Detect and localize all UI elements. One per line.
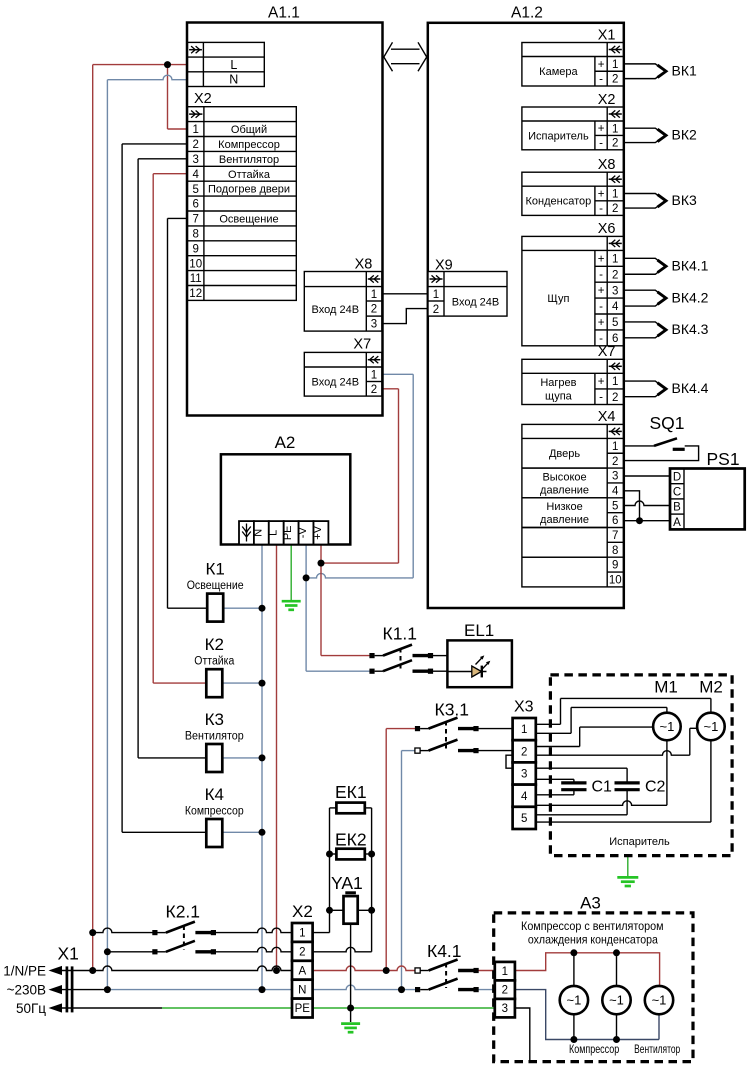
svg-text:К2.1: К2.1 (166, 902, 201, 922)
svg-text:4: 4 (521, 791, 528, 803)
svg-text:~230В: ~230В (7, 983, 46, 998)
svg-text:А3: А3 (580, 894, 601, 913)
svg-text:+: + (598, 123, 605, 135)
svg-text:2: 2 (612, 74, 618, 86)
svg-text:L: L (267, 530, 279, 536)
svg-text:2: 2 (521, 746, 527, 758)
svg-text:PE: PE (295, 1003, 311, 1015)
svg-text:Общий: Общий (231, 124, 267, 136)
svg-text:Камера: Камера (539, 66, 578, 78)
svg-text:11: 11 (190, 273, 202, 285)
svg-text:ВК4.3: ВК4.3 (672, 321, 709, 337)
svg-text:-: - (599, 301, 603, 313)
svg-text:1: 1 (612, 376, 618, 388)
svg-text:М1: М1 (654, 678, 678, 697)
svg-text:Нагрев: Нагрев (540, 377, 576, 389)
svg-text:1: 1 (612, 189, 618, 201)
svg-text:К2: К2 (205, 635, 224, 654)
svg-text:М2: М2 (699, 678, 723, 697)
svg-text:1: 1 (371, 289, 377, 301)
svg-text:4: 4 (612, 301, 619, 313)
svg-text:5: 5 (612, 317, 618, 329)
svg-text:2: 2 (502, 985, 508, 997)
svg-text:Х2: Х2 (292, 902, 313, 921)
svg-text:Компрессор: Компрессор (569, 1042, 619, 1056)
svg-text:Х4: Х4 (598, 409, 616, 425)
svg-text:-: - (599, 269, 603, 281)
svg-text:ЕК2: ЕК2 (335, 830, 367, 850)
svg-text:ВК1: ВК1 (672, 62, 697, 78)
svg-text:ВК2: ВК2 (672, 127, 697, 143)
svg-text:9: 9 (192, 243, 198, 255)
svg-text:А1.2: А1.2 (511, 5, 543, 22)
svg-text:1: 1 (433, 289, 439, 301)
svg-text:2: 2 (192, 139, 198, 151)
svg-text:Вход 24В: Вход 24В (452, 296, 500, 308)
svg-text:Х2: Х2 (598, 92, 616, 108)
svg-text:10: 10 (609, 575, 622, 587)
svg-text:А2: А2 (275, 433, 296, 452)
svg-text:2: 2 (433, 304, 439, 316)
svg-text:ЕК1: ЕК1 (335, 782, 367, 802)
svg-text:Вход 24В: Вход 24В (312, 304, 360, 316)
svg-text:~1: ~1 (652, 993, 667, 1008)
svg-text:3: 3 (612, 471, 618, 483)
svg-text:ВК4.2: ВК4.2 (672, 289, 709, 305)
svg-text:1: 1 (299, 928, 305, 940)
svg-text:D: D (673, 471, 681, 483)
svg-text:Компрессор: Компрессор (218, 139, 280, 151)
svg-text:9: 9 (612, 560, 618, 572)
svg-text:2: 2 (612, 138, 618, 150)
svg-text:К1.1: К1.1 (383, 624, 418, 644)
svg-text:Испаритель: Испаритель (609, 836, 670, 848)
svg-text:Вентилятор: Вентилятор (634, 1042, 680, 1056)
svg-text:+: + (598, 285, 605, 297)
svg-text:+: + (598, 253, 605, 265)
svg-text:L: L (230, 58, 237, 72)
svg-text:4: 4 (612, 485, 619, 497)
svg-text:5: 5 (521, 813, 527, 825)
svg-text:Х7: Х7 (353, 337, 371, 353)
svg-text:2: 2 (371, 384, 377, 396)
svg-text:-: - (599, 203, 603, 215)
svg-text:1: 1 (371, 369, 377, 381)
svg-text:N: N (229, 73, 238, 87)
svg-text:A: A (673, 517, 681, 529)
svg-text:ВК4.1: ВК4.1 (672, 258, 709, 274)
svg-text:К1: К1 (206, 560, 225, 579)
svg-text:3: 3 (502, 1003, 508, 1015)
svg-text:6: 6 (192, 199, 198, 211)
svg-text:С1: С1 (592, 779, 613, 796)
svg-text:К3.1: К3.1 (435, 700, 470, 720)
svg-text:7: 7 (192, 214, 198, 226)
svg-text:SQ1: SQ1 (650, 413, 685, 433)
svg-text:давление: давление (540, 484, 589, 496)
svg-text:Освещение: Освещение (219, 213, 278, 225)
svg-text:+V: +V (312, 525, 324, 539)
svg-text:6: 6 (612, 515, 618, 527)
svg-text:2: 2 (612, 456, 618, 468)
svg-text:PS1: PS1 (707, 449, 740, 469)
svg-text:12: 12 (189, 288, 202, 300)
svg-text:Дверь: Дверь (549, 448, 580, 460)
svg-text:Подогрев двери: Подогрев двери (208, 184, 290, 196)
svg-text:Вход 24В: Вход 24В (312, 376, 360, 388)
svg-text:N: N (298, 984, 306, 996)
svg-text:~1: ~1 (566, 993, 581, 1008)
svg-text:50Гц: 50Гц (16, 1001, 46, 1016)
svg-text:-V: -V (297, 527, 309, 539)
svg-text:YA1: YA1 (331, 873, 363, 893)
svg-text:8: 8 (192, 228, 198, 240)
svg-text:Оттайка: Оттайка (194, 656, 235, 668)
svg-text:~1: ~1 (659, 719, 674, 734)
svg-text:охлаждения конденсатора: охлаждения конденсатора (528, 932, 658, 946)
svg-text:10: 10 (189, 258, 202, 270)
svg-text:Испаритель: Испаритель (528, 130, 589, 142)
svg-text:А1.1: А1.1 (268, 5, 300, 22)
svg-text:PE: PE (282, 525, 294, 540)
svg-text:Х1: Х1 (58, 944, 79, 964)
svg-text:2: 2 (612, 392, 618, 404)
svg-text:Вентилятор: Вентилятор (219, 154, 279, 166)
svg-text:Х6: Х6 (598, 221, 616, 237)
svg-text:7: 7 (612, 530, 618, 542)
svg-text:Конденсатор: Конденсатор (526, 196, 592, 208)
svg-text:+: + (598, 188, 605, 200)
svg-text:Низкое: Низкое (546, 501, 582, 513)
svg-text:1: 1 (521, 724, 527, 736)
svg-text:К4.1: К4.1 (427, 941, 462, 961)
svg-text:2: 2 (299, 947, 305, 959)
svg-text:Компрессор с вентилятором: Компрессор с вентилятором (521, 919, 664, 933)
svg-text:Х2: Х2 (194, 91, 212, 107)
svg-text:1: 1 (612, 441, 618, 453)
svg-text:Х8: Х8 (355, 256, 373, 272)
svg-text:+: + (598, 59, 605, 71)
svg-text:Компрессор: Компрессор (185, 806, 244, 818)
svg-text:К4: К4 (205, 785, 224, 804)
svg-text:ВК4.4: ВК4.4 (672, 380, 709, 396)
svg-text:1: 1 (612, 123, 618, 135)
svg-text:2: 2 (612, 269, 618, 281)
svg-text:С2: С2 (645, 779, 666, 796)
svg-text:-: - (599, 333, 603, 345)
svg-text:-: - (599, 74, 603, 86)
svg-text:5: 5 (612, 500, 618, 512)
svg-text:Х7: Х7 (598, 344, 616, 360)
svg-text:~1: ~1 (609, 993, 624, 1008)
svg-text:3: 3 (371, 319, 377, 331)
svg-text:щупа: щупа (545, 390, 573, 402)
svg-text:EL1: EL1 (464, 621, 494, 640)
svg-text:Х8: Х8 (598, 157, 616, 173)
svg-text:2: 2 (371, 304, 377, 316)
svg-text:3: 3 (521, 769, 527, 781)
svg-text:Оттайка: Оттайка (228, 169, 271, 181)
svg-text:Освещение: Освещение (187, 580, 244, 592)
svg-text:8: 8 (612, 545, 618, 557)
svg-text:1: 1 (612, 59, 618, 71)
svg-text:+: + (598, 317, 605, 329)
svg-text:5: 5 (192, 184, 198, 196)
svg-text:1: 1 (612, 253, 618, 265)
svg-text:ВК3: ВК3 (672, 192, 697, 208)
svg-text:К3: К3 (205, 710, 224, 729)
svg-text:Щуп: Щуп (547, 293, 569, 305)
svg-text:-: - (599, 392, 603, 404)
svg-text:давление: давление (540, 514, 589, 526)
svg-text:A: A (298, 965, 306, 977)
svg-text:4: 4 (192, 169, 199, 181)
svg-text:1/N/PE: 1/N/PE (3, 964, 46, 979)
svg-text:3: 3 (612, 285, 618, 297)
svg-text:1: 1 (502, 966, 508, 978)
svg-text:+: + (598, 376, 605, 388)
svg-text:Вентилятор: Вентилятор (185, 731, 244, 743)
svg-text:3: 3 (192, 154, 198, 166)
svg-text:Х3: Х3 (514, 699, 534, 716)
svg-text:1: 1 (192, 124, 198, 136)
svg-text:-: - (599, 138, 603, 150)
svg-text:Высокое: Высокое (542, 471, 586, 483)
svg-text:C: C (673, 487, 681, 499)
svg-text:B: B (673, 502, 681, 514)
svg-text:Х1: Х1 (598, 27, 616, 43)
svg-text:~1: ~1 (703, 719, 718, 734)
svg-text:2: 2 (612, 203, 618, 215)
svg-text:N: N (252, 529, 264, 537)
